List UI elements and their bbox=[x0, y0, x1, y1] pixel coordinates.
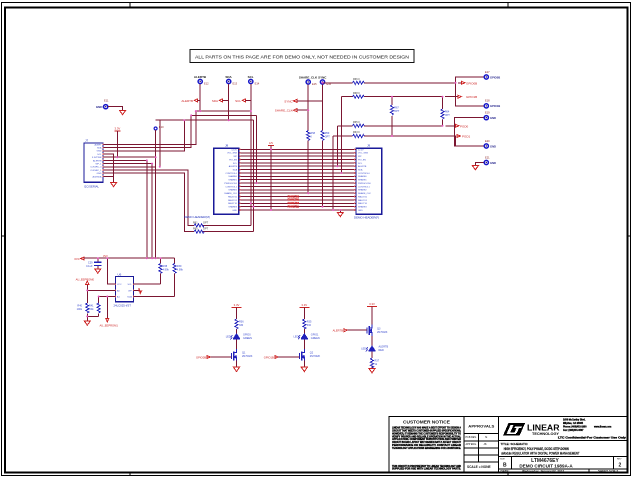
net arrow ALERTB bbox=[181, 99, 200, 103]
svg-text:DEMO CIRCUIT 1989A-A: DEMO CIRCUIT 1989A-A bbox=[519, 463, 573, 468]
header J8 DEMO HEADER(M) bbox=[184, 144, 239, 220]
transistor Q3 bbox=[367, 325, 388, 337]
svg-text:3V3: 3V3 bbox=[74, 257, 80, 261]
wire ALERTB column bbox=[199, 84, 201, 111]
svg-text:PGD1: PGD1 bbox=[462, 135, 471, 139]
wire J7 pin3 riser bbox=[103, 120, 184, 151]
svg-text:ALERTB: ALERTB bbox=[181, 99, 193, 103]
svg-text:SHEET 3 OF 3: SHEET 3 OF 3 bbox=[598, 469, 618, 473]
header pin ticks J9 bbox=[354, 149, 356, 211]
svg-text:E19: E19 bbox=[485, 111, 490, 115]
demo-only notice box bbox=[190, 50, 414, 63]
wire Q3 chain bbox=[371, 307, 373, 369]
wire drop right-net to bundle row17 bbox=[332, 136, 334, 210]
wire TP E21 to ground bbox=[475, 163, 484, 166]
svg-text:330: 330 bbox=[307, 324, 312, 327]
resistor R66 0 bbox=[353, 78, 365, 84]
svg-text:GND: GND bbox=[96, 105, 104, 109]
wire U6 VCC bbox=[107, 258, 115, 284]
svg-text:GREEN: GREEN bbox=[311, 337, 320, 340]
ground flag (open arrow) at GND TP bbox=[120, 111, 126, 115]
svg-text:VOL_SNS: VOL_SNS bbox=[358, 153, 368, 155]
wire J7 3.3VPWR row bbox=[103, 156, 156, 158]
svg-text:ALERTB: ALERTB bbox=[358, 165, 367, 168]
svg-text:SHARE1: SHARE1 bbox=[228, 179, 237, 182]
svg-text:JS: JS bbox=[484, 442, 487, 446]
ground flag below bundle bbox=[337, 212, 343, 216]
svg-text:E21: E21 bbox=[485, 155, 490, 159]
svg-text:Phone: (408)432-1900: Phone: (408)432-1900 bbox=[563, 425, 587, 428]
testpoint E19 GND bbox=[484, 111, 496, 121]
svg-text:ALERT: ALERT bbox=[94, 143, 102, 146]
J7 pin labels bbox=[90, 143, 102, 178]
resistor R39 4.99k bbox=[173, 258, 184, 296]
svg-text:SHARE0: SHARE0 bbox=[358, 175, 367, 178]
svg-text:SHARE_CLK: SHARE_CLK bbox=[275, 109, 293, 113]
wire row4 continue right bbox=[392, 136, 456, 146]
resistor R58 0 bbox=[307, 131, 316, 141]
svg-text:PIO_EN: PIO_EN bbox=[358, 159, 366, 161]
svg-text:GND: GND bbox=[490, 144, 496, 148]
wire Q2 drain chain bbox=[303, 308, 305, 368]
testpoint E18 GPIO1B bbox=[484, 99, 500, 109]
wire GND testpoint to ground bbox=[108, 107, 122, 111]
svg-text:R61: R61 bbox=[193, 221, 198, 224]
wire J7 gnd pin bbox=[103, 154, 114, 183]
power flag 3.3V Q3 bbox=[367, 302, 377, 307]
resistor R63 0 bbox=[353, 131, 365, 137]
svg-text:SDA: SDA bbox=[225, 75, 232, 79]
svg-text:Wednesday, January 02, 2013: Wednesday, January 02, 2013 bbox=[522, 469, 564, 473]
Linear Technology logo bbox=[503, 423, 560, 436]
svg-text:R65 0: R65 0 bbox=[353, 121, 360, 124]
svg-text:SHARE0: SHARE0 bbox=[228, 175, 237, 178]
svg-text:PGD0: PGD0 bbox=[460, 124, 469, 128]
power flag 12V column bbox=[268, 142, 274, 210]
svg-text:PCB DES.: PCB DES. bbox=[466, 436, 477, 439]
svg-text:FAULT11: FAULT11 bbox=[288, 204, 300, 208]
svg-text:330: 330 bbox=[239, 324, 244, 327]
svg-text:SDA: SDA bbox=[127, 295, 132, 298]
U6 pin ticks bbox=[115, 283, 133, 297]
svg-text:GREEN: GREEN bbox=[243, 337, 252, 340]
title cell text bbox=[501, 442, 580, 456]
svg-text:REV: REV bbox=[617, 458, 622, 460]
transistor Q1 bbox=[232, 349, 253, 361]
svg-text:SCALE = NONE: SCALE = NONE bbox=[467, 465, 491, 469]
svg-text:B: B bbox=[503, 463, 507, 469]
svg-text:RED: RED bbox=[379, 349, 384, 352]
testpoint E20 GND bbox=[484, 139, 496, 149]
LED2 GPIO1 GREEN bbox=[294, 334, 320, 340]
svg-text:LTC Confidential-For Customer: LTC Confidential-For Customer Use Only bbox=[558, 436, 627, 439]
LED3 ALERTB RED bbox=[361, 346, 388, 352]
svg-text:SUPPLIED FOR USE WITH LINEAR T: SUPPLIED FOR USE WITH LINEAR TECHNOLOGY … bbox=[392, 468, 461, 471]
svg-text:4.99k: 4.99k bbox=[163, 268, 170, 271]
svg-text:100k: 100k bbox=[88, 308, 94, 311]
net arrow ALERTB gate Q3 bbox=[333, 329, 368, 333]
net arrow GPIO1B row2 bbox=[458, 95, 477, 99]
svg-text:FAULT00: FAULT00 bbox=[288, 194, 300, 198]
svg-text:GND: GND bbox=[97, 173, 102, 175]
resistor R67 OPT vertical bbox=[390, 97, 399, 136]
ground flag Q1 bbox=[234, 367, 240, 371]
svg-text:VCC: VCC bbox=[117, 284, 122, 286]
net arrow SCL bbox=[235, 99, 251, 103]
svg-text:SYNC: SYNC bbox=[318, 75, 327, 79]
svg-text:TECHNOLOGY APPLICATIONS ENGINE: TECHNOLOGY APPLICATIONS ENGINEERING FOR … bbox=[392, 447, 461, 450]
svg-text:GPIO0B: GPIO0B bbox=[466, 81, 477, 85]
wire SYNC row to R66 bbox=[323, 82, 462, 84]
U6 pin labels bbox=[117, 284, 133, 298]
svg-text:3.3V: 3.3V bbox=[234, 303, 240, 307]
svg-text:SHARE2: SHARE2 bbox=[358, 189, 367, 192]
svg-text:DEMO HEADER(F): DEMO HEADER(F) bbox=[354, 216, 379, 220]
svg-text:E14: E14 bbox=[255, 82, 260, 86]
svg-text:SYNC: SYNC bbox=[284, 99, 293, 103]
net arrow AU_EEPROM1 down bbox=[100, 319, 119, 328]
wire row3 to R65 bbox=[337, 125, 455, 127]
svg-text:LED3: LED3 bbox=[361, 348, 368, 351]
resistor R59 OPT bbox=[321, 131, 330, 141]
svg-text:R68 0: R68 0 bbox=[353, 92, 360, 95]
svg-text:FAULT01: FAULT01 bbox=[358, 199, 368, 202]
svg-text:CLKSRC_1: CLKSRC_1 bbox=[90, 170, 102, 172]
svg-text:DEMO HEADER(M): DEMO HEADER(M) bbox=[184, 215, 210, 219]
wire Q1 drain chain bbox=[236, 308, 238, 368]
svg-text:R60: R60 bbox=[193, 228, 198, 231]
svg-text:GND: GND bbox=[97, 151, 102, 153]
wire TP loop GND pair bbox=[455, 118, 484, 146]
svg-text:SCL: SCL bbox=[248, 75, 254, 79]
svg-text:12V: 12V bbox=[269, 142, 274, 145]
svg-text:FAULT01: FAULT01 bbox=[228, 199, 238, 202]
svg-text:0.1uF: 0.1uF bbox=[86, 265, 93, 268]
testpoint E12 ALERTB bbox=[194, 75, 209, 86]
resistor R40 100k bbox=[77, 303, 89, 321]
svg-text:APPROVALS: APPROVALS bbox=[468, 425, 495, 429]
resistor R65 0 bbox=[353, 121, 365, 127]
svg-text:GPIO1B: GPIO1B bbox=[490, 104, 500, 108]
svg-text:AUXSDA: AUXSDA bbox=[93, 175, 103, 178]
svg-text:SHARE_CLK: SHARE_CLK bbox=[299, 75, 318, 79]
svg-text:PWRGOOD0: PWRGOOD0 bbox=[224, 183, 238, 185]
svg-text:Fax: (408)434-0507: Fax: (408)434-0507 bbox=[563, 429, 584, 432]
net arrow SHARE_CLK bbox=[275, 109, 308, 113]
wire SHARE_CLK column to bundle bbox=[307, 84, 309, 193]
wire J7 row10 to R60 loop bbox=[103, 173, 253, 231]
wire J7 row7 bbox=[103, 163, 152, 165]
wire vertical drop to U6 area 3 bbox=[155, 130, 157, 258]
svg-text:4.99k: 4.99k bbox=[177, 268, 184, 271]
svg-text:R63 0: R63 0 bbox=[353, 131, 360, 134]
wire bus row B bbox=[191, 114, 256, 116]
wire R41 top to A1 row bbox=[99, 296, 116, 298]
connector J7 bbox=[84, 139, 103, 189]
svg-text:AU_EEPROM0: AU_EEPROM0 bbox=[76, 277, 95, 281]
svg-text:GND: GND bbox=[490, 116, 496, 120]
wire vertical drop to U6 area 1 bbox=[146, 160, 148, 258]
svg-text:WP_1: WP_1 bbox=[96, 164, 103, 166]
svg-text:E17: E17 bbox=[485, 70, 490, 74]
net arrow SCL0 row3 bbox=[456, 124, 469, 128]
svg-text:J9: J9 bbox=[367, 144, 371, 148]
svg-text:SDA: SDA bbox=[358, 169, 363, 172]
net arrow SDA bbox=[212, 99, 229, 103]
resistor R68 0 bbox=[353, 92, 365, 98]
svg-text:FAULT00: FAULT00 bbox=[358, 195, 368, 198]
power flag 3.3V Q1 bbox=[232, 303, 242, 308]
header pin ticks J8 bbox=[239, 149, 241, 211]
svg-text:Milpitas, CA 95035: Milpitas, CA 95035 bbox=[563, 422, 584, 425]
svg-text:CONTROL1: CONTROL1 bbox=[358, 186, 370, 188]
wire U6 SCL to R38 bbox=[133, 283, 160, 285]
svg-text:ALERTB: ALERTB bbox=[333, 329, 344, 333]
wire J7 row8 bbox=[103, 166, 156, 168]
svg-text:E13: E13 bbox=[233, 82, 238, 86]
svg-text:3.3V: 3.3V bbox=[115, 126, 121, 130]
testpoint E10 3.3V bbox=[154, 125, 164, 130]
svg-text:AU_EEPROM1: AU_EEPROM1 bbox=[100, 324, 119, 328]
testpoint E21 GND bbox=[484, 155, 496, 165]
svg-text:WP: WP bbox=[234, 156, 238, 158]
wire TP loop GPIO0B/GPIO1B bbox=[456, 77, 484, 106]
wire riser from R61 to header bundle bbox=[252, 120, 254, 231]
svg-text:3.3V: 3.3V bbox=[369, 302, 375, 306]
wire SYNC column to bundle bbox=[322, 84, 324, 206]
svg-text:PWRGOOD0: PWRGOOD0 bbox=[358, 183, 372, 185]
svg-text:E20: E20 bbox=[485, 139, 490, 143]
wire 3V3 supply row bbox=[84, 257, 175, 259]
svg-text:GND: GND bbox=[232, 210, 237, 212]
wire A0 column bbox=[87, 285, 115, 303]
svg-text:SDA: SDA bbox=[212, 99, 218, 103]
wire J7 pin2 riser bbox=[103, 115, 191, 147]
resistor R36 330 bbox=[235, 319, 244, 329]
ground flag below R40 bbox=[84, 321, 90, 325]
IC U6 24LC025 bbox=[114, 272, 134, 307]
wire bus row A bbox=[196, 110, 251, 112]
svg-text:ALERTB: ALERTB bbox=[229, 165, 238, 168]
svg-text:GPIO1B: GPIO1B bbox=[264, 355, 274, 359]
LED1 GPIO0 GREEN bbox=[226, 334, 252, 340]
wire vertical drop to U6 area 2 bbox=[151, 164, 153, 259]
svg-text:OPT: OPT bbox=[203, 221, 209, 224]
svg-text:GND: GND bbox=[358, 210, 363, 212]
logo address block bbox=[558, 419, 627, 440]
net arrow AUX_EEPROM left bbox=[76, 277, 95, 284]
resistor R60 OPT bbox=[193, 221, 209, 227]
net arrow PGD1 row4 bbox=[457, 135, 471, 139]
size / ic no / rev row bbox=[500, 456, 622, 469]
resistor R35 330 bbox=[303, 319, 312, 329]
svg-text:U6: U6 bbox=[118, 272, 122, 276]
svg-text:www.linear.com: www.linear.com bbox=[594, 426, 611, 428]
wire gnd stub below bundle bbox=[339, 210, 341, 212]
svg-text:SHARE_CLK: SHARE_CLK bbox=[358, 192, 371, 195]
svg-text:HIGH EFFICIENCY, POLY-PHASE, D: HIGH EFFICIENCY, POLY-PHASE, DC/DC STEP-… bbox=[504, 447, 570, 451]
power flag 3.3V near J7 bbox=[114, 126, 120, 131]
customer notice cell bbox=[392, 420, 461, 471]
svg-text:OPT: OPT bbox=[325, 135, 331, 138]
svg-text:CUSTOMER NOTICE: CUSTOMER NOTICE bbox=[403, 420, 450, 425]
svg-text:FAULT01: FAULT01 bbox=[288, 198, 300, 202]
net arrow SYNC bbox=[284, 99, 322, 103]
wire J7 row6 bbox=[103, 159, 147, 161]
net arrow 3V3 left bbox=[74, 257, 84, 261]
svg-text:WP: WP bbox=[128, 290, 132, 292]
testpoint E16 SYNC bbox=[318, 75, 332, 86]
svg-text:APP ENG.: APP ENG. bbox=[466, 443, 478, 446]
svg-text:OPT: OPT bbox=[445, 114, 451, 117]
testpoint E15 SHARE_CLK bbox=[299, 75, 318, 86]
svg-text:GPIO1B: GPIO1B bbox=[466, 95, 477, 99]
ground flag Q2 bbox=[301, 367, 307, 371]
resistor R41 100k bbox=[88, 297, 100, 317]
testpoint E13 SDA bbox=[225, 75, 237, 86]
svg-text:100k: 100k bbox=[77, 308, 83, 311]
svg-text:12.0V: 12.0V bbox=[358, 149, 364, 151]
J8 pin labels bbox=[224, 149, 238, 212]
svg-text:R66 0: R66 0 bbox=[353, 78, 360, 81]
capacitor C29 0.1uF bbox=[86, 258, 102, 269]
wire bus row C bbox=[156, 119, 254, 121]
svg-text:LED2: LED2 bbox=[294, 336, 301, 339]
wire rowC drop to J7 row8 bbox=[159, 120, 161, 167]
svg-text:TITLE: SCHEMATIC: TITLE: SCHEMATIC bbox=[501, 442, 529, 446]
svg-text:GND: GND bbox=[490, 161, 496, 165]
svg-text:3.3V: 3.3V bbox=[301, 303, 307, 307]
svg-text:IC NO.: IC NO. bbox=[514, 456, 521, 458]
wire drop right-net to bundle row8 bbox=[340, 97, 342, 173]
svg-text:1630 McCarthy Blvd.: 1630 McCarthy Blvd. bbox=[563, 419, 586, 422]
svg-text:CONTROL0: CONTROL0 bbox=[358, 173, 370, 175]
svg-text:12.0V: 12.0V bbox=[231, 149, 237, 151]
svg-text:DATE:: DATE: bbox=[501, 469, 510, 473]
svg-text:CONTROL0: CONTROL0 bbox=[225, 173, 237, 175]
wire riser bundle drop bbox=[256, 115, 258, 183]
svg-text:SHARE_CLK: SHARE_CLK bbox=[224, 192, 237, 195]
wire SCL column bbox=[250, 84, 252, 226]
J9 pin labels bbox=[358, 149, 372, 212]
svg-text:OPT: OPT bbox=[394, 110, 400, 113]
ground flag U6 WP pin bbox=[133, 288, 141, 293]
wire bundle between headers (19 rows) bbox=[239, 149, 356, 210]
svg-text:TECHNOLOGY: TECHNOLOGY bbox=[532, 432, 560, 436]
net arrow GPIO1B gate bbox=[264, 355, 300, 359]
svg-text:ALL PARTS ON THIS PAGE ARE FOR: ALL PARTS ON THIS PAGE ARE FOR DEMO ONLY… bbox=[195, 54, 409, 59]
svg-text:SDA: SDA bbox=[233, 169, 238, 172]
svg-text:SHARE3: SHARE3 bbox=[358, 206, 367, 209]
resistor R38 4.99k bbox=[159, 258, 170, 284]
svg-text:ht: ht bbox=[485, 435, 487, 439]
svg-text:VOL_SNS: VOL_SNS bbox=[227, 153, 237, 155]
wire J7 row9 to R61 loop bbox=[103, 170, 251, 225]
testpoint E17 GPIO0B bbox=[484, 70, 500, 80]
svg-text:SHARE3: SHARE3 bbox=[228, 206, 237, 209]
svg-text:2N7002K: 2N7002K bbox=[242, 355, 253, 358]
svg-text:SIZE: SIZE bbox=[500, 458, 505, 460]
wire A1 drop to net arrow bbox=[106, 297, 108, 319]
svg-text:J8: J8 bbox=[225, 144, 229, 148]
wire row4 to R63 bbox=[333, 135, 392, 137]
svg-text:SHARE1: SHARE1 bbox=[358, 179, 367, 182]
svg-text:PIO_EN: PIO_EN bbox=[229, 159, 237, 161]
header J9 DEMO HEADER(F) bbox=[354, 144, 382, 220]
svg-text:E11: E11 bbox=[104, 99, 109, 103]
svg-text:FAULT10: FAULT10 bbox=[228, 202, 238, 205]
svg-text:2N7002K: 2N7002K bbox=[310, 355, 321, 358]
ground flag below C29 bbox=[95, 269, 101, 273]
svg-text:ALERTB: ALERTB bbox=[194, 75, 207, 79]
net arrow GPIO0B gate bbox=[196, 355, 232, 359]
wire drop right-net to bundle row6 bbox=[336, 126, 338, 166]
svg-text:FAULT00: FAULT00 bbox=[228, 195, 238, 198]
svg-text:GPIO0B: GPIO0B bbox=[490, 75, 500, 79]
testpoint E11 GND bbox=[96, 99, 109, 110]
wire J7 pin1 riser bbox=[103, 111, 196, 144]
svg-text:E15: E15 bbox=[312, 82, 317, 86]
svg-text:OPT: OPT bbox=[203, 228, 209, 231]
approvals cell bbox=[466, 425, 495, 470]
wire SDA column bbox=[228, 84, 230, 120]
resistor R61 OPT bbox=[193, 228, 209, 234]
ground flag below J7 bbox=[111, 183, 117, 187]
svg-text:ALERTB: ALERTB bbox=[93, 159, 102, 162]
svg-text:LED1: LED1 bbox=[226, 336, 233, 339]
svg-text:CONTROL1: CONTROL1 bbox=[225, 186, 237, 188]
svg-text:FAULT10: FAULT10 bbox=[358, 202, 368, 205]
svg-text:CLKSRC_0: CLKSRC_0 bbox=[90, 167, 102, 169]
svg-text:WP: WP bbox=[358, 156, 362, 158]
date / sheet row bbox=[501, 469, 619, 473]
svg-text:E12: E12 bbox=[204, 82, 209, 86]
svg-text:J7: J7 bbox=[85, 139, 89, 143]
svg-text:24LC025-I/ST: 24LC025-I/ST bbox=[114, 303, 132, 307]
power flag 3.3V Q2 bbox=[299, 303, 309, 308]
svg-text:SCL: SCL bbox=[235, 99, 241, 103]
svg-text:2N7002K: 2N7002K bbox=[377, 331, 388, 334]
svg-text:I2C/SERIAL: I2C/SERIAL bbox=[84, 184, 100, 188]
wire row2 to R68 bbox=[341, 96, 458, 98]
svg-text:2: 2 bbox=[619, 463, 622, 469]
ground flag right column bbox=[472, 166, 478, 170]
transistor Q2 bbox=[299, 349, 320, 361]
svg-text:3.3VPWR: 3.3VPWR bbox=[92, 157, 102, 159]
svg-text:E18: E18 bbox=[485, 99, 490, 103]
svg-text:SDA: SDA bbox=[97, 147, 102, 150]
wire U6 SDA to R39 bbox=[133, 296, 174, 298]
resistor R64 OPT vertical bbox=[441, 97, 450, 126]
svg-text:GPIO0B: GPIO0B bbox=[196, 355, 206, 359]
svg-text:SHARE2: SHARE2 bbox=[228, 189, 237, 192]
net labels FAULT rows (red) bbox=[288, 194, 300, 208]
resistor R37 1k bbox=[370, 358, 379, 368]
J7 pin ticks bbox=[102, 144, 104, 178]
wire R40/R41 bottoms join bbox=[87, 315, 98, 317]
wire 3.3V flag down to J7 3.3VPWR pin row bbox=[116, 131, 118, 157]
ground flag Q3 bbox=[369, 369, 375, 373]
testpoint E14 SCL bbox=[248, 75, 260, 86]
net arrow GPIO0B row1 bbox=[462, 81, 478, 85]
